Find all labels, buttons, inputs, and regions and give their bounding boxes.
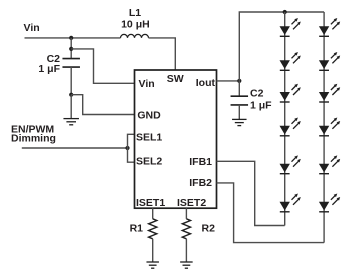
- node junction Vin-pin tap: [69, 47, 73, 51]
- LED D4 string 1: [280, 118, 301, 136]
- svg-text:1 μF: 1 μF: [250, 100, 272, 112]
- ground R1: [146, 262, 159, 268]
- wire output node up and across top: [239, 12, 324, 81]
- wire tap to Vin pin: [71, 49, 134, 83]
- wire node to ground: [70, 95, 72, 119]
- wire output node to C2 output: [238, 81, 240, 96]
- node junction Vin/C2: [69, 36, 73, 40]
- svg-text:Iout: Iout: [196, 77, 216, 89]
- wire ISET1 to R1: [152, 208, 154, 219]
- LED D8 string 2: [319, 52, 340, 70]
- LED D1 string 1: [280, 18, 301, 36]
- node junction LED string 1 anode: [283, 10, 287, 14]
- wire IFB1 return: [217, 161, 285, 225]
- LED D9 string 2: [319, 84, 340, 102]
- wire SEL bracket: [128, 134, 135, 162]
- wire IFB2 return: [217, 183, 325, 243]
- svg-text:Vin: Vin: [139, 78, 155, 90]
- svg-text:R2: R2: [202, 222, 216, 234]
- svg-text:GND: GND: [137, 110, 161, 122]
- node junction SEL: [125, 146, 129, 150]
- wire R2 to ground: [185, 239, 187, 262]
- svg-text:SW: SW: [167, 73, 184, 85]
- resistor R1: [149, 219, 157, 239]
- capacitor C2 output: [231, 96, 249, 105]
- wire junction down to C2: [70, 38, 72, 59]
- ground input cap: [63, 119, 78, 125]
- svg-text:SEL1: SEL1: [136, 131, 162, 143]
- svg-text:10 μH: 10 μH: [121, 19, 150, 31]
- wire L1 to SW corner: [149, 38, 176, 70]
- svg-text:IFB1: IFB1: [189, 156, 212, 168]
- svg-text:C2: C2: [250, 87, 264, 99]
- wire EN/PWM to SEL junction: [22, 147, 128, 149]
- svg-text:Vin: Vin: [24, 22, 40, 34]
- svg-text:IFB2: IFB2: [189, 177, 212, 189]
- wire LED string 1: [284, 12, 286, 226]
- LED D7 string 2: [319, 18, 340, 36]
- op IC U1 TPS61160: [135, 70, 217, 208]
- wire tap to GND pin: [71, 95, 134, 115]
- svg-text:SEL2: SEL2: [136, 155, 162, 167]
- wire Vin input to inductor L1: [25, 37, 121, 39]
- LED D3 string 1: [280, 84, 301, 102]
- inductor L1: [121, 34, 149, 38]
- LED D2 string 1: [280, 52, 301, 70]
- node junction Iout/C2 output: [237, 79, 241, 83]
- LED D10 string 2: [319, 118, 340, 136]
- wire C2 output to ground: [238, 105, 240, 120]
- wire C2 to ground node: [70, 67, 72, 95]
- svg-text:L1: L1: [129, 7, 141, 19]
- svg-text:ISET1: ISET1: [136, 197, 165, 209]
- LED D5 string 1: [280, 155, 301, 173]
- ground R2: [180, 262, 193, 268]
- LED D11 string 2: [319, 155, 340, 173]
- node junction GND tap: [69, 93, 73, 97]
- svg-text:1 μF: 1 μF: [38, 63, 60, 75]
- capacitor C2 input: [62, 59, 79, 68]
- LED D12 string 2: [319, 194, 340, 212]
- svg-text:R1: R1: [130, 222, 144, 234]
- ground output cap: [232, 119, 247, 125]
- wire ISET2 to R2: [185, 208, 187, 219]
- wire Iout to output node: [217, 80, 240, 82]
- LED D6 string 1: [280, 194, 301, 212]
- svg-text:Dimming: Dimming: [11, 132, 56, 144]
- svg-text:ISET2: ISET2: [177, 197, 206, 209]
- wire LED string 2: [323, 12, 325, 243]
- wire R1 to ground: [152, 239, 154, 262]
- resistor R2: [182, 219, 190, 239]
